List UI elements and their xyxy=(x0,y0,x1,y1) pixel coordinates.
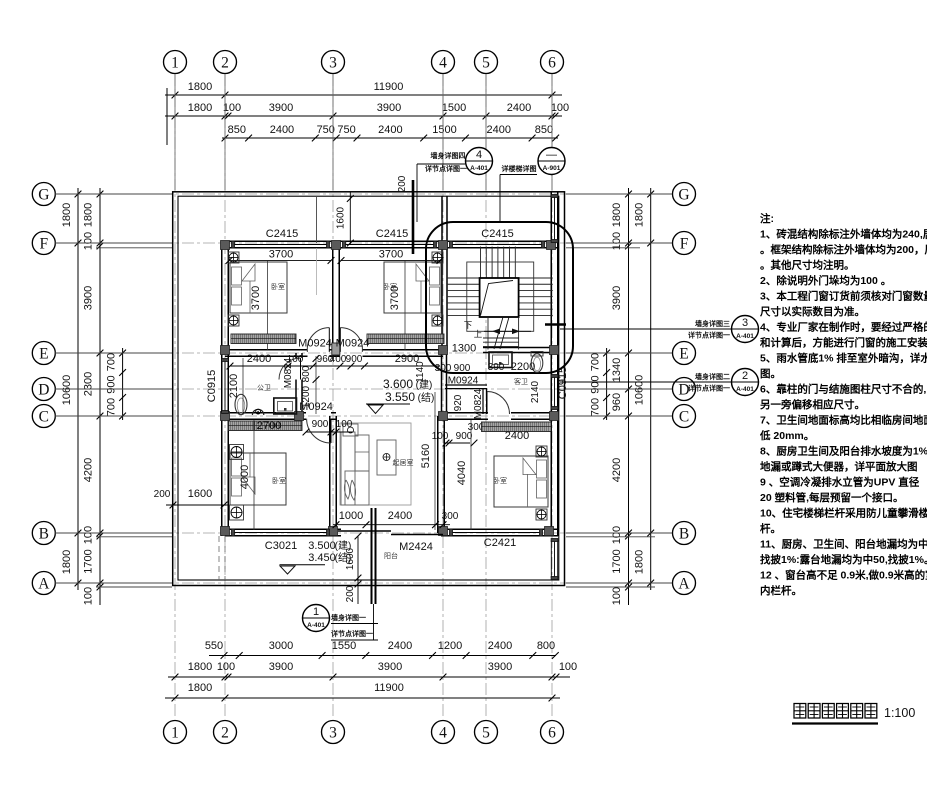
svg-text:6: 6 xyxy=(548,55,556,72)
svg-text:低 20mm。: 低 20mm。 xyxy=(759,429,814,442)
window C3021 (B, bay 2-3) xyxy=(233,528,328,530)
svg-text:1800: 1800 xyxy=(188,102,212,114)
svg-text:2140: 2140 xyxy=(530,380,541,403)
column at (336,245) xyxy=(332,241,341,250)
grid bubble C left xyxy=(32,405,55,428)
svg-text:1、砖混结构除标注外墙体均为240,居中: 1、砖混结构除标注外墙体均为240,居中 xyxy=(760,228,927,241)
svg-text:960: 960 xyxy=(611,393,623,411)
svg-text:2400: 2400 xyxy=(388,640,412,652)
svg-text:100: 100 xyxy=(559,661,577,673)
svg-text:4: 4 xyxy=(476,149,482,161)
svg-text:4: 4 xyxy=(439,55,447,72)
svg-text:850: 850 xyxy=(535,124,553,136)
svg-text:内栏杆。: 内栏杆。 xyxy=(760,584,802,597)
svg-text:10600: 10600 xyxy=(634,375,646,406)
grid bubble G left xyxy=(32,183,55,206)
svg-text:750: 750 xyxy=(317,124,335,136)
svg-text:100: 100 xyxy=(611,587,623,605)
svg-text:详节点详图一: 详节点详图一 xyxy=(688,384,730,393)
callout 1/A-401 bottom xyxy=(303,605,330,632)
svg-text:800: 800 xyxy=(301,365,312,382)
svg-text:1140: 1140 xyxy=(415,361,426,383)
svg-text:20 塑料管,每层预留一个接口。: 20 塑料管,每层预留一个接口。 xyxy=(760,491,904,504)
window C0915 (left wall) xyxy=(221,360,223,412)
column at (443,416) xyxy=(439,412,448,421)
svg-text:A: A xyxy=(678,576,690,593)
svg-text:A-401: A-401 xyxy=(470,165,488,172)
column at (549,531) xyxy=(545,527,554,536)
svg-text:3700: 3700 xyxy=(250,286,262,310)
svg-text:2200: 2200 xyxy=(511,361,535,373)
wardrobe TR (hatched) xyxy=(367,334,444,344)
balcony dim 1600/200 xyxy=(357,536,359,604)
svg-text:1800: 1800 xyxy=(188,661,212,673)
grid line 3 xyxy=(332,74,334,719)
svg-text:尺寸以实际数目为准。: 尺寸以实际数目为准。 xyxy=(760,305,865,318)
bedside symbol TL1 xyxy=(228,252,239,263)
svg-text:390: 390 xyxy=(488,362,505,373)
svg-text:10、住宅楼梯栏杆采用防儿童攀滑楼梯栏: 10、住宅楼梯栏杆采用防儿童攀滑楼梯栏 xyxy=(760,507,927,520)
column at (554,416) xyxy=(550,412,559,421)
svg-text:12 、窗台高不足 0.9米,做0.9米高的室: 12 、窗台高不足 0.9米,做0.9米高的室 xyxy=(760,569,927,582)
left wall edge extension B xyxy=(96,536,172,538)
column at (299,416) xyxy=(295,412,304,421)
stair landing xyxy=(480,278,519,317)
svg-text:3.600: 3.600 xyxy=(383,377,413,391)
svg-text:750: 750 xyxy=(337,124,355,136)
living bottom dims xyxy=(333,524,450,526)
window right wall G-F xyxy=(550,196,552,241)
door M0924 corridor right xyxy=(339,328,341,352)
svg-text:3: 3 xyxy=(329,55,337,72)
bottom dim row 2 (1800 100 3900 3900 3900 100) xyxy=(168,676,570,678)
svg-text:3900: 3900 xyxy=(488,661,512,673)
toilet (guest bath) xyxy=(531,354,543,373)
door M0924 living xyxy=(330,419,332,443)
svg-text:F: F xyxy=(680,236,689,253)
svg-text:4000: 4000 xyxy=(239,465,251,489)
grid bubble 6 bottom xyxy=(541,721,564,744)
wardrobe BL (hatched) xyxy=(228,421,302,431)
svg-text:2300: 2300 xyxy=(83,372,95,396)
svg-text:C2415: C2415 xyxy=(376,228,408,240)
right dim col 1 (700 900 700) xyxy=(606,348,608,420)
right extension line xyxy=(566,242,672,244)
right extension line xyxy=(566,415,672,417)
svg-text:5、雨水管底1% 排至室外暗沟，详水施: 5、雨水管底1% 排至室外暗沟，详水施 xyxy=(760,352,927,365)
svg-text:3900: 3900 xyxy=(83,286,95,310)
svg-text:D: D xyxy=(38,382,49,399)
grid bubble F left xyxy=(32,232,55,255)
svg-text:墙身详图二: 墙身详图二 xyxy=(695,372,730,381)
svg-text:5: 5 xyxy=(482,725,490,742)
svg-text:找披1%:露台地漏均为中50,找披1%。: 找披1%:露台地漏均为中50,找披1%。 xyxy=(760,553,927,566)
svg-text:A-401: A-401 xyxy=(307,622,325,629)
grid bubble E right xyxy=(673,342,696,365)
wall bath right x=299 xyxy=(295,353,297,358)
svg-text:3900: 3900 xyxy=(377,102,401,114)
living room rug outline xyxy=(340,423,411,505)
svg-text:图。: 图。 xyxy=(760,368,781,380)
svg-text:1:100: 1:100 xyxy=(884,706,915,720)
sink (guest bath) xyxy=(489,352,512,368)
svg-text:300: 300 xyxy=(435,363,452,374)
grid extension line top xyxy=(174,74,176,190)
svg-text:1700: 1700 xyxy=(611,549,623,573)
grid bubble D left xyxy=(32,378,55,401)
svg-text:C: C xyxy=(679,409,689,426)
svg-text:C0915: C0915 xyxy=(557,367,569,399)
svg-text:M2424: M2424 xyxy=(399,541,433,553)
svg-text:1800: 1800 xyxy=(634,203,646,227)
svg-text:详节点详图一: 详节点详图一 xyxy=(425,164,467,173)
svg-text:2400: 2400 xyxy=(488,640,512,652)
grid bubble 4 bottom xyxy=(432,721,455,744)
column at (333,531) xyxy=(329,527,338,536)
stair upper flight treads xyxy=(480,247,482,279)
svg-text:。框架结构除标注外墙体均为200，居中: 。框架结构除标注外墙体均为200，居中 xyxy=(760,243,927,256)
grid line C xyxy=(56,415,672,417)
svg-text:7、卫生间地面标高均比相临房间地面标高: 7、卫生间地面标高均比相临房间地面标高 xyxy=(760,414,927,427)
svg-text:2700: 2700 xyxy=(257,420,281,432)
svg-text:11900: 11900 xyxy=(374,682,404,694)
grid bubble 2 bottom xyxy=(214,721,237,744)
grid bubble E left xyxy=(32,342,55,365)
grid line 2 xyxy=(224,74,226,719)
left extension line xyxy=(55,532,172,534)
svg-text:1800: 1800 xyxy=(61,550,73,574)
svg-text:700: 700 xyxy=(106,353,118,371)
svg-text:100: 100 xyxy=(611,526,623,544)
grid extension line top xyxy=(551,74,553,190)
window C2415 (F, bay 3-4) xyxy=(344,240,435,242)
svg-text:6: 6 xyxy=(548,725,556,742)
svg-text:1800: 1800 xyxy=(83,203,95,227)
right wall edge extension F xyxy=(566,247,640,249)
svg-text:2: 2 xyxy=(221,725,229,742)
svg-text:上: 上 xyxy=(474,329,483,339)
svg-text:(结): (结) xyxy=(418,391,435,404)
svg-text:1: 1 xyxy=(171,725,179,742)
grid bubble 5 bottom xyxy=(475,721,498,744)
svg-text:100: 100 xyxy=(287,354,304,365)
svg-text:850: 850 xyxy=(228,124,246,136)
sofa L xyxy=(341,432,355,505)
svg-text:A: A xyxy=(38,576,50,593)
svg-text:1600: 1600 xyxy=(345,547,356,570)
grid extension line top xyxy=(442,74,444,190)
svg-text:卧室: 卧室 xyxy=(271,282,285,291)
column at (225,531) xyxy=(221,527,230,536)
grid bubble 3 top xyxy=(322,51,345,74)
svg-text:1600: 1600 xyxy=(336,206,347,229)
svg-text:2、除说明外门垛均为100 。: 2、除说明外门垛均为100 。 xyxy=(760,274,891,287)
grid line 6 xyxy=(551,74,553,719)
svg-text:F: F xyxy=(39,236,48,253)
svg-text:3000: 3000 xyxy=(269,640,293,652)
svg-text:3900: 3900 xyxy=(611,286,623,310)
dim 200/1600 top xyxy=(349,192,351,245)
grid line 4 xyxy=(442,74,444,719)
wardrobe TL (hatched) xyxy=(231,334,296,344)
svg-text:卧室: 卧室 xyxy=(493,476,507,485)
svg-text:墙身详图三: 墙身详图三 xyxy=(695,319,730,328)
svg-text:10600: 10600 xyxy=(61,375,73,406)
svg-text:1500: 1500 xyxy=(442,102,466,114)
svg-text:详节点详图一: 详节点详图一 xyxy=(688,331,730,340)
svg-text:C3021: C3021 xyxy=(265,540,297,552)
svg-text:。其他尺寸均注明。: 。其他尺寸均注明。 xyxy=(760,259,855,272)
top dim row 2 (1800 100 3900 3900 1500 2400 100) xyxy=(165,115,562,117)
window C2415 (F, bay 2-3) xyxy=(233,240,328,242)
svg-text:C0915: C0915 xyxy=(206,370,218,402)
right extension line xyxy=(566,388,672,390)
svg-text:M0924: M0924 xyxy=(448,376,479,387)
svg-text:11、厨房、卫生间、阳台地漏均为中50,: 11、厨房、卫生间、阳台地漏均为中50, xyxy=(760,538,927,551)
svg-text:900: 900 xyxy=(312,419,329,430)
callout 4/A-401 top xyxy=(466,148,493,175)
svg-text:3.550: 3.550 xyxy=(385,390,415,404)
svg-text:1200: 1200 xyxy=(438,640,462,652)
bedside symbol BR1 xyxy=(536,446,547,457)
right extension line xyxy=(566,352,672,354)
grid bubble A left xyxy=(32,572,55,595)
svg-text:3900: 3900 xyxy=(269,661,293,673)
right wall edge extension B xyxy=(566,536,655,538)
svg-text:700: 700 xyxy=(590,353,602,371)
svg-text:1000: 1000 xyxy=(339,510,363,522)
bed (bedroom BL) xyxy=(230,453,286,505)
svg-text:B: B xyxy=(679,526,689,543)
window C2421 (B, bay 4-6) xyxy=(451,528,541,530)
stair rail rectangle xyxy=(467,262,534,331)
grid bubble A right xyxy=(673,572,696,595)
toilet (public bath) xyxy=(235,394,247,414)
grid bubble G right xyxy=(673,183,696,206)
svg-text:2400: 2400 xyxy=(270,124,294,136)
grid line G xyxy=(56,193,672,195)
left extension line xyxy=(55,242,172,244)
svg-text:700: 700 xyxy=(106,398,118,416)
grid bubble F right xyxy=(673,232,696,255)
svg-text:阳台: 阳台 xyxy=(384,551,398,560)
svg-text:100: 100 xyxy=(336,419,353,430)
grid bubble 5 top xyxy=(475,51,498,74)
stair lower flight xyxy=(487,317,489,350)
svg-text:墙身详图一: 墙身详图一 xyxy=(331,613,366,622)
svg-text:M0924: M0924 xyxy=(298,338,332,350)
svg-text:100: 100 xyxy=(83,587,95,605)
grid extension line top xyxy=(485,74,487,190)
grid line A xyxy=(56,582,672,584)
tv cabinet xyxy=(343,424,358,436)
column at (443,350) xyxy=(439,346,448,355)
svg-text:B: B xyxy=(39,526,49,543)
column at (554,350) xyxy=(550,346,559,355)
stair arrow xyxy=(484,330,531,332)
svg-text:4、专业厂家在制作时，要经过严格的检验: 4、专业厂家在制作时，要经过严格的检验 xyxy=(760,321,927,334)
grid bubble 6 top xyxy=(541,51,564,74)
door M0824 (public bath) xyxy=(300,358,302,380)
left wall edge extension F xyxy=(96,247,172,249)
door M0924 corridor left xyxy=(328,328,330,352)
column at (551,245) xyxy=(547,241,556,250)
svg-text:1: 1 xyxy=(171,55,179,72)
svg-text:1340: 1340 xyxy=(611,358,623,382)
svg-text:M0824: M0824 xyxy=(473,388,484,419)
wall x=440 (corridor/stair right) xyxy=(441,196,443,351)
svg-text:800: 800 xyxy=(537,640,555,652)
svg-text:8、厨房卫生间及阳台排水坡度为1%,按向: 8、厨房卫生间及阳台排水坡度为1%,按向 xyxy=(760,445,927,458)
svg-text:3、本工程门窗订货前须核对门窗数量洞口: 3、本工程门窗订货前须核对门窗数量洞口 xyxy=(760,290,927,303)
grid line D xyxy=(56,388,672,390)
terrace joint line xyxy=(316,196,318,243)
svg-text:100: 100 xyxy=(223,102,241,114)
stair side flights treads xyxy=(447,277,480,279)
svg-text:起居室: 起居室 xyxy=(393,458,414,467)
grid bubble 1 bottom xyxy=(164,721,187,744)
bedside symbol TL2 xyxy=(228,315,239,326)
bedside symbol BL1 xyxy=(230,445,244,460)
svg-text:1800: 1800 xyxy=(611,203,623,227)
top dim row 1 (1800, 11900) xyxy=(165,94,562,96)
svg-text:100: 100 xyxy=(432,431,449,442)
dim line under bedrooms xyxy=(230,365,306,367)
left extension line xyxy=(55,352,172,354)
svg-text:G: G xyxy=(38,187,49,204)
svg-text:和计算后，方能进行门窗的施工安装。: 和计算后，方能进行门窗的施工安装。 xyxy=(759,336,927,349)
wall B (bottom of rooms) xyxy=(225,528,341,530)
svg-text:1700: 1700 xyxy=(83,549,95,573)
grid bubble 3 bottom xyxy=(322,721,345,744)
bed (bedroom BR) xyxy=(494,456,548,507)
wall left (x=225) xyxy=(221,241,223,536)
svg-text:客卫: 客卫 xyxy=(514,377,528,386)
bed (bedroom TL) xyxy=(230,262,287,313)
svg-text:下: 下 xyxy=(464,320,473,330)
svg-text:2400: 2400 xyxy=(505,430,529,442)
svg-text:注:: 注: xyxy=(760,212,774,225)
stair detail bubble (rounded rect) xyxy=(426,222,573,373)
window balcony right wall xyxy=(550,540,552,578)
svg-text:3700: 3700 xyxy=(269,249,293,261)
top dim extension mark xyxy=(166,88,168,145)
title (er ceng ceng ping mian tu 1:100) xyxy=(794,704,806,719)
svg-text:M0924: M0924 xyxy=(299,401,333,413)
callout A-901 stair xyxy=(538,148,565,175)
svg-text:C: C xyxy=(39,409,49,426)
left dim col 1 (1800 10600 1800) xyxy=(77,188,79,590)
wall guest hall bottom xyxy=(445,384,487,386)
right dim col 3 (1800 10600 1800) xyxy=(650,188,652,590)
svg-text:200: 200 xyxy=(345,585,356,602)
wall mid vertical x=336 (bed1/living) xyxy=(332,241,334,353)
svg-text:900: 900 xyxy=(454,363,471,374)
grid line E xyxy=(56,352,672,354)
svg-text:C2415: C2415 xyxy=(481,228,513,240)
svg-text:G: G xyxy=(678,187,689,204)
column at (225,245) xyxy=(221,241,230,250)
callout 1 leader thick xyxy=(371,508,373,604)
svg-text:900: 900 xyxy=(106,375,118,393)
wall guest hall right stub xyxy=(482,389,484,415)
svg-text:2400: 2400 xyxy=(388,510,412,522)
svg-text:2: 2 xyxy=(221,55,229,72)
wall right (x=554.5) xyxy=(550,192,552,536)
svg-text:3700: 3700 xyxy=(379,249,403,261)
svg-text:100: 100 xyxy=(83,526,95,544)
svg-text:4: 4 xyxy=(439,725,447,742)
sink (public bath) xyxy=(274,398,297,414)
svg-text:550: 550 xyxy=(205,640,223,652)
svg-text:—: — xyxy=(546,149,557,161)
bedside symbol BR2 xyxy=(536,509,547,520)
column at (443,531) xyxy=(439,527,448,536)
top dim row 3 (850 2400 750 750 2400 1500 2400 850) xyxy=(222,137,558,139)
right extension line xyxy=(566,193,672,195)
grid bubble D right xyxy=(673,378,696,401)
svg-text:3: 3 xyxy=(742,317,748,329)
grid line 5 xyxy=(485,74,487,719)
grid bubble B left xyxy=(32,522,55,545)
grid line F xyxy=(56,242,672,244)
right wall edge extension A xyxy=(566,586,655,588)
svg-text:3.500: 3.500 xyxy=(308,540,336,552)
bottom dim row 3 (1800 11900) xyxy=(165,697,560,699)
wall E (corridor top) xyxy=(225,349,308,351)
callout leader thick (top) xyxy=(412,180,415,254)
svg-text:200: 200 xyxy=(397,175,408,192)
svg-text:4040: 4040 xyxy=(456,461,468,485)
svg-text:3.450: 3.450 xyxy=(308,552,336,564)
svg-text:900: 900 xyxy=(456,431,473,442)
wardrobe BR (hatched) xyxy=(482,422,552,432)
svg-text:4200: 4200 xyxy=(611,458,623,482)
svg-text:1800: 1800 xyxy=(188,682,212,694)
column at (225,350) xyxy=(221,346,230,355)
wall F (top of rooms) xyxy=(225,240,558,242)
svg-text:墙身详图四: 墙身详图四 xyxy=(431,151,466,160)
grid line B xyxy=(56,532,672,534)
svg-text:100: 100 xyxy=(217,661,235,673)
right extension line xyxy=(566,532,672,534)
svg-text:E: E xyxy=(679,346,688,363)
svg-text:6、靠柱的门与结施图柱尺寸不合的,门向: 6、靠柱的门与结施图柱尺寸不合的,门向 xyxy=(760,383,927,396)
outer wall outline xyxy=(173,192,565,586)
svg-text:1800: 1800 xyxy=(188,81,212,93)
svg-text:1800: 1800 xyxy=(61,203,73,227)
svg-text:详楼梯详图: 详楼梯详图 xyxy=(502,164,537,173)
floor drain (public bath) xyxy=(252,409,263,415)
svg-text:5160: 5160 xyxy=(420,444,432,468)
dashed hidden line (terrace left) xyxy=(218,536,220,580)
svg-text:400: 400 xyxy=(330,354,347,365)
grid bubble B right xyxy=(673,522,696,545)
svg-text:100: 100 xyxy=(83,232,95,250)
grid bubble 2 top xyxy=(214,51,237,74)
svg-text:4200: 4200 xyxy=(83,458,95,482)
left extension line xyxy=(55,582,172,584)
wall C xyxy=(225,412,306,414)
column at (225,416) xyxy=(221,412,230,421)
grid line 1 xyxy=(174,74,176,719)
corridor dim row xyxy=(306,365,440,367)
svg-text:1800: 1800 xyxy=(634,550,646,574)
svg-text:3900: 3900 xyxy=(269,102,293,114)
column at (443,245) xyxy=(439,241,448,250)
callout 2/A-401 right xyxy=(732,369,759,396)
svg-text:2400: 2400 xyxy=(487,124,511,136)
